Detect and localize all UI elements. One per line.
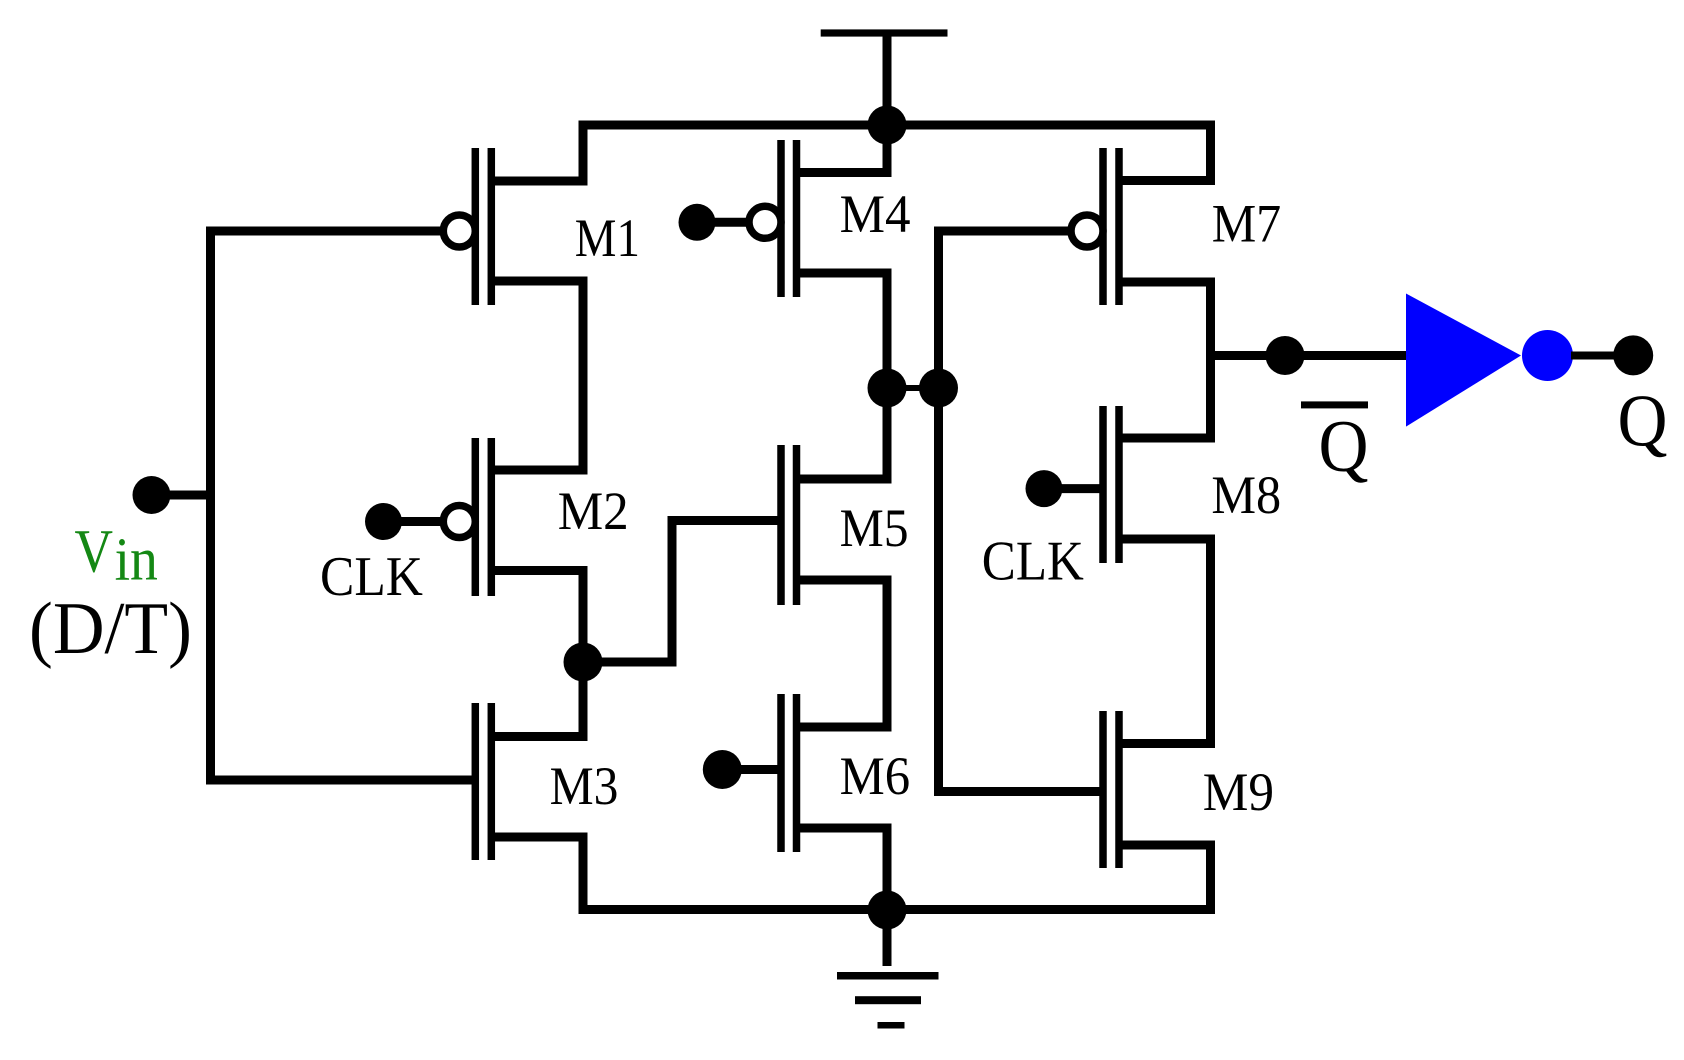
- wire: bottom ground rail: [579, 905, 1216, 914]
- svg-text:M1: M1: [575, 208, 640, 268]
- svg-text:CLK: CLK: [320, 546, 423, 608]
- wire: node A to M5 gate elbow (horizontal): [583, 658, 672, 667]
- svg-text:M6: M6: [840, 746, 911, 806]
- svg-text:M4: M4: [840, 184, 911, 244]
- VDD power symbol: [821, 29, 948, 125]
- wire: M9 source to ground rail: [1206, 845, 1215, 914]
- node: gate terminal dot for M4: [679, 204, 716, 241]
- wire: M3 source to ground rail: [579, 837, 588, 914]
- node: Q output terminal dot: [1613, 335, 1653, 375]
- wire: M5 source to M6 drain: [883, 580, 892, 727]
- wire: node A down to M3 drain: [579, 662, 588, 737]
- transistor M1 (PMOS): [443, 148, 587, 305]
- transistor M6 (NMOS): [781, 694, 892, 852]
- node: CLK terminal dot for M8: [1026, 470, 1063, 507]
- node: VDD junction dot: [868, 106, 907, 145]
- svg-text:M9: M9: [1203, 762, 1274, 822]
- svg-text:M2: M2: [558, 481, 629, 541]
- wire: M9 gate lead: [934, 787, 1100, 796]
- wire: M2 source down to node A: [579, 571, 588, 663]
- node: Vin input terminal dot: [133, 476, 171, 514]
- wire: M7 gate lead: [934, 227, 1069, 236]
- wire: node B to M5 drain: [883, 388, 892, 479]
- node: CLK terminal dot for M2: [365, 503, 402, 540]
- wire: VDD dot to M4 drain: [883, 125, 892, 173]
- wire: VDD rail to M7 drain: [1206, 121, 1215, 181]
- ground symbol: [837, 910, 939, 1029]
- wire: M4 dot to bubble: [697, 218, 746, 227]
- transistor M8 (NMOS): [1103, 406, 1215, 563]
- wire: M5 gate lead: [668, 516, 782, 525]
- wire: node C up to M7 gate elbow: [934, 227, 943, 389]
- wire: M6 dot to gate: [722, 765, 781, 774]
- transistor M4 (PMOS): [749, 140, 892, 297]
- node A dot (M2/M3 junction): [564, 643, 603, 682]
- wire: CLK dot to M2 bubble: [384, 517, 441, 526]
- inverter output bubble (blue node): [1522, 330, 1573, 381]
- node B dot (M4/M5 junction): [868, 369, 907, 408]
- wire: M7 source to M8 drain (Qbar branch): [1206, 282, 1215, 438]
- label Vin (green): [75, 518, 158, 593]
- wire: M4 source down to node B: [883, 273, 892, 388]
- wire: Vin terminal to input rail: [152, 491, 211, 500]
- wire: M1 source to M2 drain: [579, 281, 588, 470]
- svg-text:Q: Q: [1618, 380, 1668, 462]
- wire: M8 source to M9 drain: [1206, 539, 1215, 744]
- wire: link node B to node C: [887, 385, 939, 391]
- inverter U1 (blue triangle): [1406, 294, 1521, 427]
- wire: M3 gate lead from input rail: [206, 776, 475, 785]
- node: gate terminal dot for M6: [703, 750, 742, 789]
- transistor M9 (NMOS): [1103, 711, 1215, 868]
- svg-text:M5: M5: [840, 498, 909, 558]
- svg-text:CLK: CLK: [982, 530, 1084, 592]
- svg-text:M8: M8: [1211, 465, 1281, 525]
- svg-text:M3: M3: [550, 756, 619, 816]
- transistor M5 (NMOS): [781, 445, 892, 605]
- wire: Qbar output line to inverter: [1206, 351, 1406, 360]
- transistor M2 (PMOS pass): [443, 438, 587, 596]
- wire: top VDD rail: [579, 121, 1216, 130]
- wire: inverter output to Q terminal: [1571, 352, 1633, 360]
- wire: CLK dot to M8 gate: [1044, 484, 1100, 493]
- node C dot: [919, 369, 958, 408]
- label Qbar with overline: [1301, 401, 1369, 488]
- wire: M5 gate elbow vertical: [668, 516, 677, 667]
- transistor M7 (PMOS): [1071, 148, 1215, 305]
- wire: VDD rail to M1 drain: [579, 121, 588, 182]
- wire: M1 gate lead from input rail: [206, 227, 440, 236]
- transistor M3 (NMOS): [475, 703, 587, 860]
- wire: left input rail: [206, 227, 215, 785]
- wire: M6 source to ground dot: [883, 828, 892, 910]
- svg-text:in: in: [115, 526, 158, 593]
- svg-text:V: V: [75, 518, 114, 585]
- svg-text:Q: Q: [1319, 406, 1369, 488]
- node: Qbar dot: [1266, 336, 1305, 375]
- svg-text:(D/T): (D/T): [29, 588, 192, 670]
- svg-text:M7: M7: [1212, 194, 1282, 254]
- node: ground junction dot: [868, 891, 907, 930]
- wire: node C down to M9 gate elbow: [934, 388, 943, 796]
